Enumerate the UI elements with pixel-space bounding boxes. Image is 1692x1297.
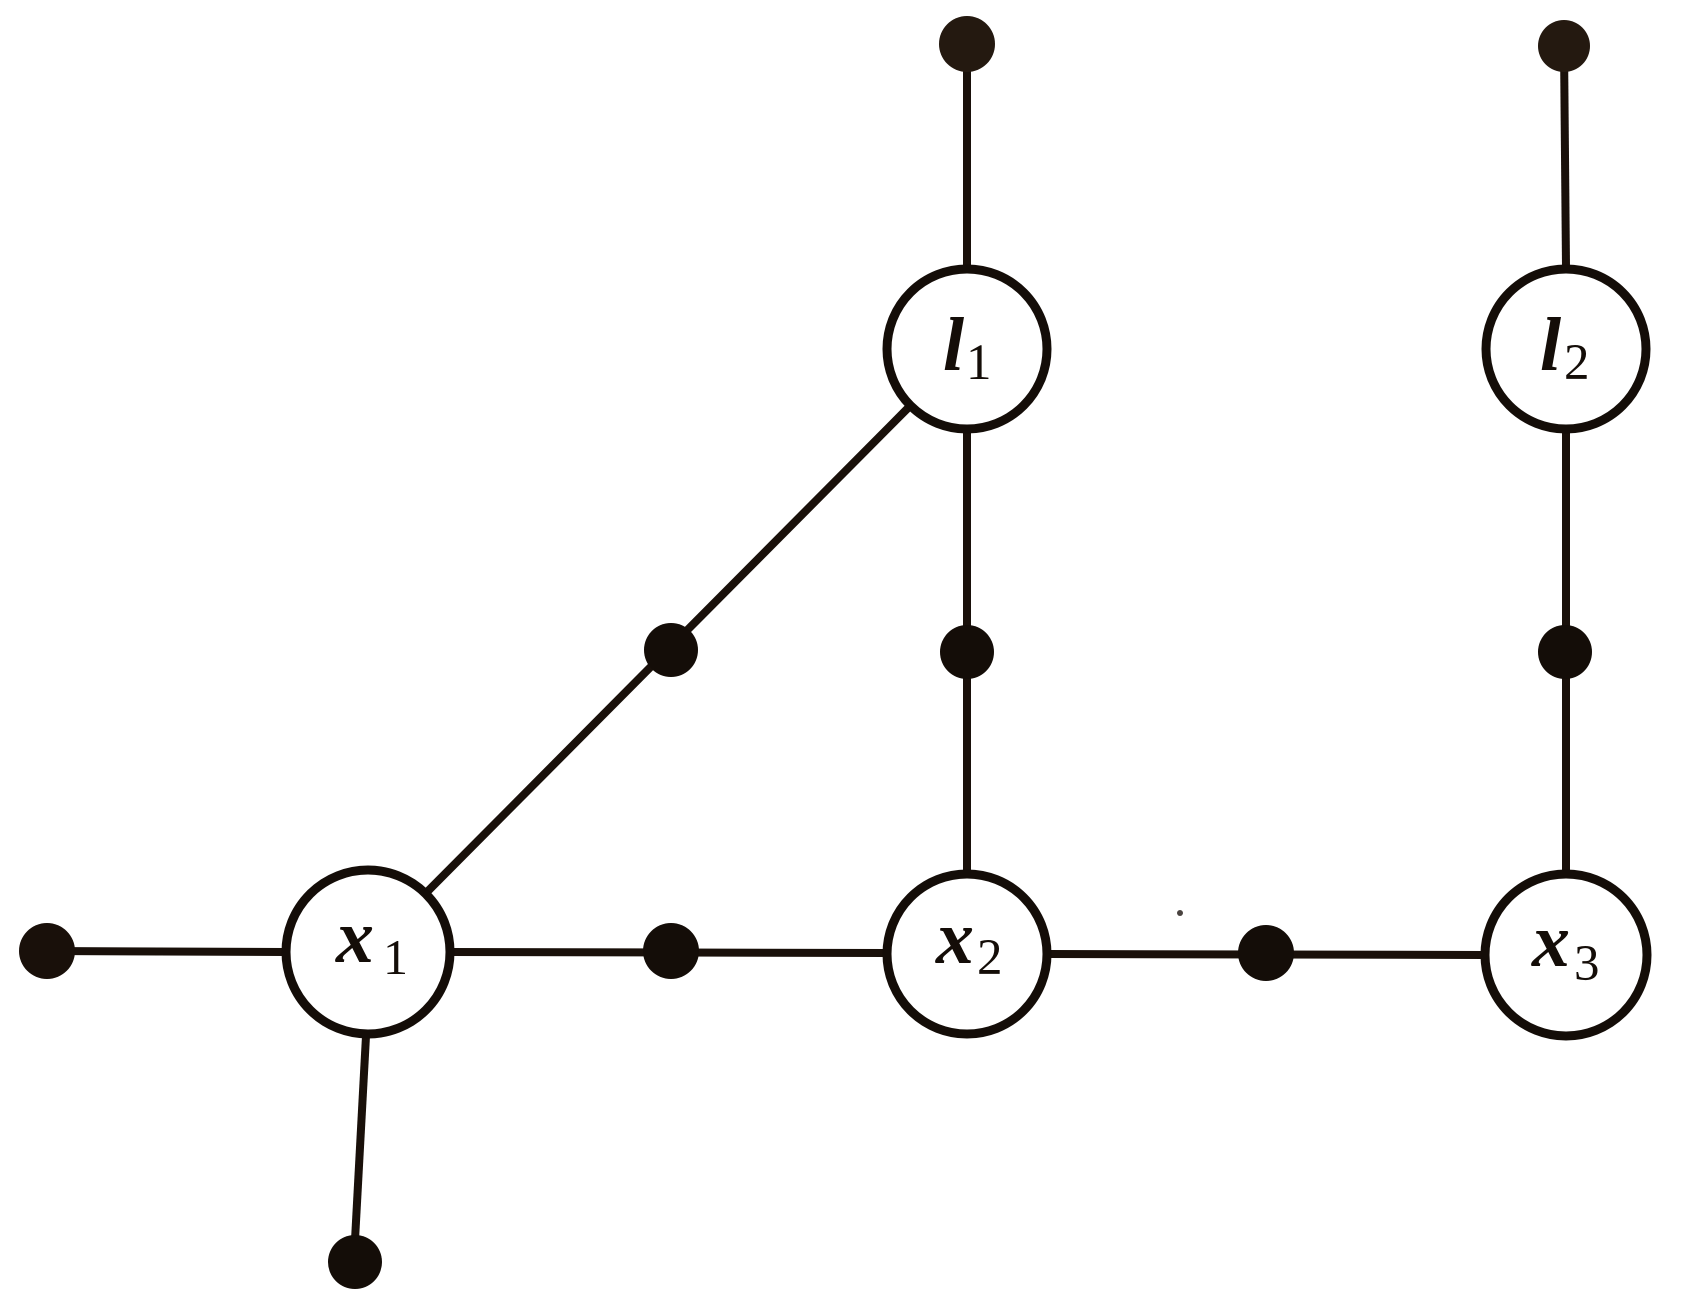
wire: x1 down to unary factor xyxy=(355,1036,366,1240)
wire: prior factor to l2 (vertical) xyxy=(1564,46,1566,267)
factor dot between x2 and x3 xyxy=(1238,925,1294,981)
factor dot below x1 xyxy=(328,1235,382,1289)
svg-text:x: x xyxy=(335,895,374,979)
factor dot on diagonal l1-x1 xyxy=(644,623,698,677)
factor dot above l2 xyxy=(1538,20,1590,72)
svg-text:1: 1 xyxy=(383,929,408,985)
svg-text:2: 2 xyxy=(977,930,1003,986)
factor dot between l2 and x3 xyxy=(1538,625,1592,679)
factor dot above l1 xyxy=(939,16,995,72)
wire: prior factor to l1 (vertical) xyxy=(963,44,971,267)
wire: l2 to x3 (vertical through measurement factor) xyxy=(1562,431,1570,872)
factor dot left of x1 xyxy=(19,923,75,979)
wire: left prior factor to x1 (horizontal) xyxy=(47,951,284,952)
svg-text:2: 2 xyxy=(1564,335,1590,391)
svg-text:3: 3 xyxy=(1574,936,1600,992)
svg-text:x: x xyxy=(935,896,974,980)
svg-text:x: x xyxy=(1531,899,1570,983)
variable node x3 xyxy=(1485,874,1647,1036)
svg-text:1: 1 xyxy=(966,335,992,391)
wire: x2 to x3 (horizontal through odometry factor) xyxy=(1049,954,1483,955)
variable node x1 xyxy=(286,870,450,1034)
landmark node l2 xyxy=(1486,269,1646,429)
svg-text:l: l xyxy=(1540,303,1561,387)
wire: l1 to x1 (diagonal through measurement factor) xyxy=(428,407,909,891)
factor dot between l1 and x2 xyxy=(940,625,994,679)
wire: x1 to x2 (horizontal through odometry factor) xyxy=(452,952,885,953)
svg-text:l: l xyxy=(943,303,964,387)
landmark node l1 xyxy=(887,269,1047,429)
factor dot between x1 and x2 xyxy=(643,923,699,979)
tiny ink speck xyxy=(1177,910,1183,916)
variable node x2 xyxy=(887,874,1047,1034)
wire: l1 to x2 (vertical through measurement factor) xyxy=(963,431,971,872)
